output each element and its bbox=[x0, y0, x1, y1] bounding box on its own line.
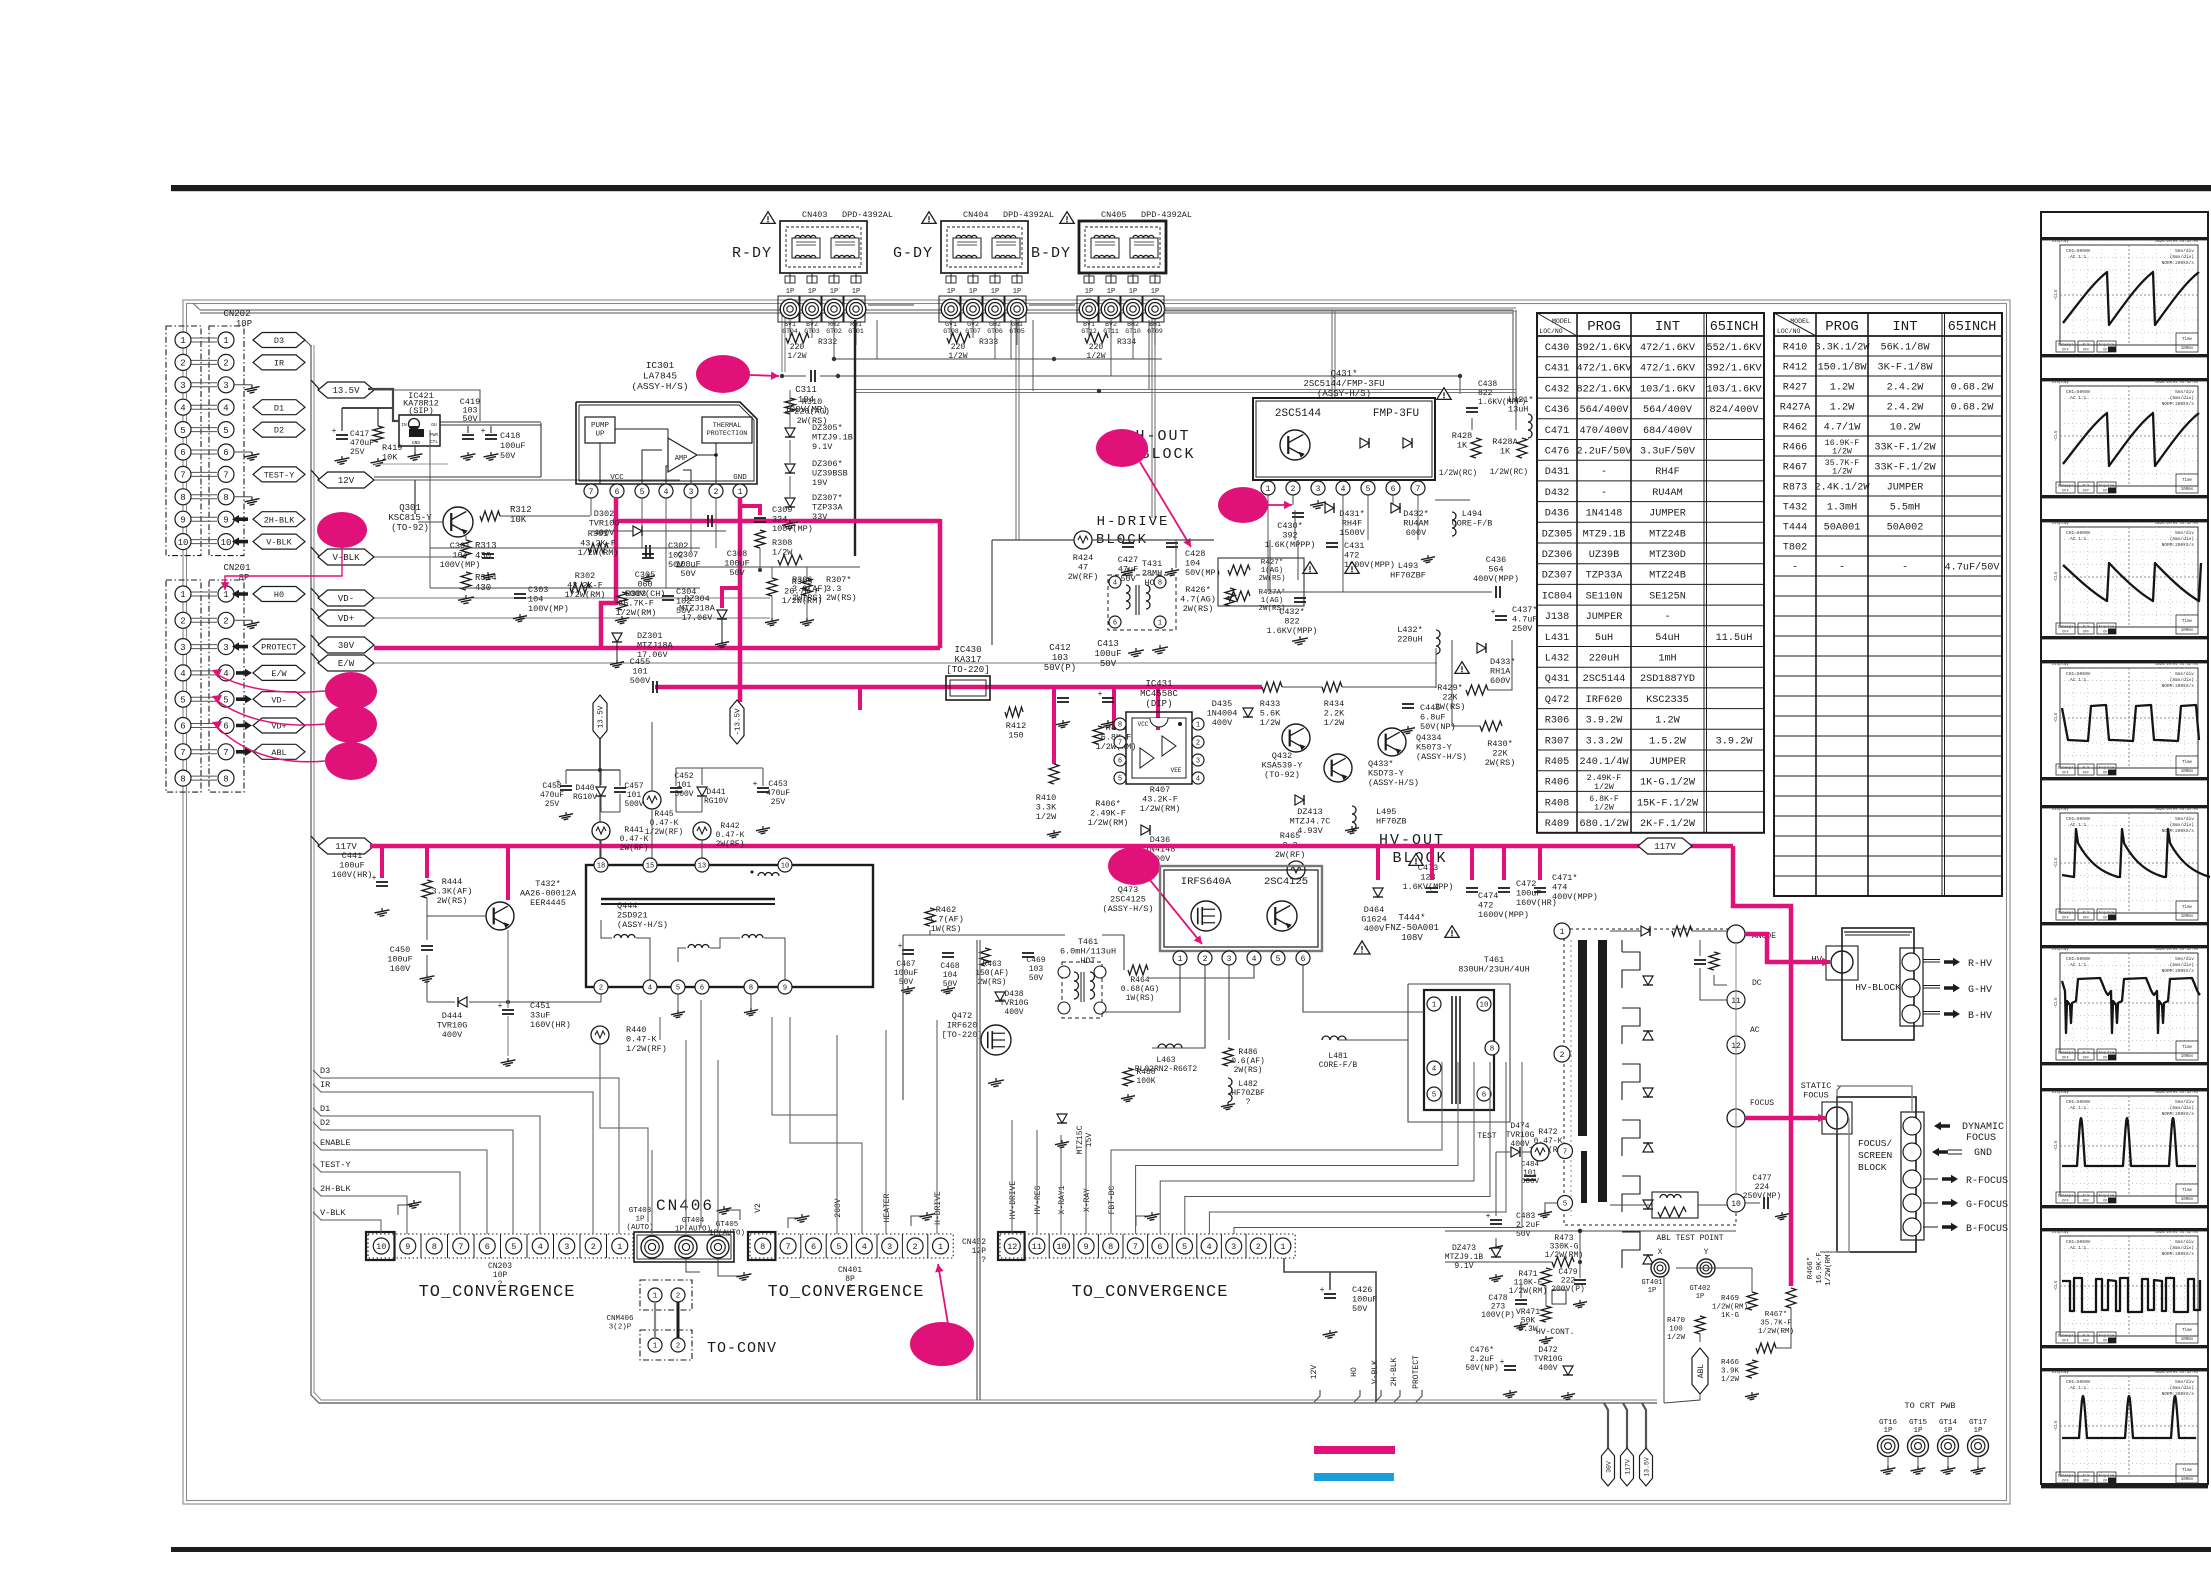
svg-text:5: 5 bbox=[223, 695, 228, 705]
svg-text:3: 3 bbox=[564, 1242, 569, 1252]
callout oval H-OUT bbox=[1096, 429, 1148, 467]
svg-text:DZ305: DZ305 bbox=[1542, 529, 1573, 540]
svg-text:L431: L431 bbox=[1545, 633, 1569, 644]
svg-text:7: 7 bbox=[1563, 1149, 1568, 1157]
resistor R466 pink path bbox=[1786, 1288, 1796, 1308]
svg-text:3(2)P: 3(2)P bbox=[609, 1324, 632, 1332]
svg-text:100ms: 100ms bbox=[2181, 915, 2194, 919]
svg-text:PUMP: PUMP bbox=[591, 422, 610, 430]
node 13.5V stub bbox=[1640, 1448, 1653, 1486]
svg-text:2.2K: 2.2K bbox=[1324, 709, 1345, 719]
svg-text:C307: C307 bbox=[678, 550, 698, 560]
svg-text:R427*: R427* bbox=[1261, 559, 1284, 567]
capacitor C302 bbox=[642, 553, 654, 555]
svg-text:MODEL: MODEL bbox=[1552, 318, 1572, 325]
switch pins bbox=[1173, 951, 1187, 965]
transistor Q433 bbox=[1324, 754, 1352, 782]
svg-text:2SC5144: 2SC5144 bbox=[1583, 674, 1626, 685]
svg-text:Interpl: Interpl bbox=[2058, 484, 2075, 489]
top rule bbox=[171, 185, 2211, 191]
svg-text:4: 4 bbox=[1252, 955, 1257, 964]
svg-text:1/2W: 1/2W bbox=[1260, 718, 1281, 728]
svg-text:220: 220 bbox=[790, 343, 805, 352]
svg-text:R466: R466 bbox=[1721, 1359, 1740, 1367]
svg-text:5: 5 bbox=[511, 1242, 516, 1252]
svg-text:1600V(MPP): 1600V(MPP) bbox=[1478, 910, 1529, 920]
svg-text:SE125N: SE125N bbox=[1649, 591, 1686, 602]
svg-text:R442: R442 bbox=[720, 822, 739, 831]
svg-text:1500V: 1500V bbox=[1339, 528, 1365, 538]
svg-text:D3: D3 bbox=[274, 336, 284, 346]
resistor R463 bbox=[980, 948, 990, 966]
svg-text:R462: R462 bbox=[1783, 423, 1807, 434]
svg-text:DZ304: DZ304 bbox=[684, 594, 710, 604]
svg-text:Interpl: Interpl bbox=[2058, 343, 2075, 348]
svg-text:+: + bbox=[332, 427, 337, 436]
svg-text:50V: 50V bbox=[1100, 659, 1117, 669]
svg-text:X:Y: X:Y bbox=[2083, 626, 2091, 630]
legend blue bar bbox=[1314, 1473, 1394, 1481]
svg-text:CORE-F/B: CORE-F/B bbox=[1452, 519, 1493, 529]
svg-text:TO_CONVERGENCE: TO_CONVERGENCE bbox=[1072, 1283, 1229, 1302]
svg-text:10.2W: 10.2W bbox=[1890, 423, 1921, 434]
svg-text:1/2W(RC): 1/2W(RC) bbox=[1490, 468, 1528, 477]
capacitor C301 bbox=[482, 553, 494, 555]
node IR bbox=[253, 355, 305, 370]
svg-text:DZ307: DZ307 bbox=[1542, 571, 1573, 582]
svg-text:3: 3 bbox=[1196, 758, 1200, 766]
svg-text:10P: 10P bbox=[493, 1271, 508, 1280]
svg-text:4: 4 bbox=[664, 488, 669, 497]
transformer T432 bbox=[586, 865, 873, 987]
svg-text:160V: 160V bbox=[390, 964, 411, 974]
svg-text:2: 2 bbox=[223, 359, 228, 369]
svg-text:1998/10/04 14:32:04: 1998/10/04 14:32:04 bbox=[2155, 380, 2199, 385]
svg-text:INT: INT bbox=[1655, 319, 1680, 335]
svg-text:(5ms/div): (5ms/div) bbox=[2170, 536, 2194, 542]
svg-text:X-RAY1: X-RAY1 bbox=[1058, 1185, 1067, 1214]
svg-text:Time: Time bbox=[2182, 337, 2193, 342]
svg-text:MODEL: MODEL bbox=[1790, 318, 1810, 325]
svg-text:824/400V: 824/400V bbox=[1710, 404, 1760, 416]
svg-text:HF70ZB: HF70ZB bbox=[1376, 817, 1407, 827]
svg-text:1/2W(RC): 1/2W(RC) bbox=[1439, 469, 1477, 478]
capacitor C432 bbox=[1294, 597, 1306, 599]
svg-text:564: 564 bbox=[1488, 565, 1503, 575]
svg-text:CN403: CN403 bbox=[802, 210, 828, 220]
svg-text:+: + bbox=[1320, 1286, 1325, 1295]
svg-text:4.7(AG): 4.7(AG) bbox=[1180, 595, 1216, 605]
svg-text:Display: Display bbox=[2052, 380, 2069, 385]
svg-text:L481: L481 bbox=[1328, 1052, 1347, 1061]
svg-text:8: 8 bbox=[749, 985, 753, 993]
svg-text:43.2K-F: 43.2K-F bbox=[567, 581, 603, 591]
oscillogram pulses2 bbox=[2041, 1368, 2208, 1371]
svg-text:R410: R410 bbox=[1783, 343, 1807, 354]
capacitor C474 bbox=[1466, 887, 1478, 889]
svg-text:DPD-4392AL: DPD-4392AL bbox=[1141, 210, 1192, 220]
svg-text:5ms/div: 5ms/div bbox=[2175, 248, 2194, 254]
svg-text:-CLV: -CLV bbox=[2053, 712, 2059, 723]
zener DZ306 bbox=[785, 464, 795, 473]
svg-text:100K: 100K bbox=[1136, 1077, 1155, 1086]
svg-text:D435: D435 bbox=[1212, 699, 1232, 709]
svg-text:4: 4 bbox=[1341, 485, 1346, 494]
resistor R310 bbox=[785, 398, 795, 414]
svg-text:L432*: L432* bbox=[1397, 625, 1423, 635]
svg-text:6: 6 bbox=[1157, 1242, 1162, 1252]
svg-text:HO: HO bbox=[1350, 1367, 1359, 1377]
svg-text:DYNAMIC: DYNAMIC bbox=[1962, 1122, 2004, 1133]
resistor R333 bbox=[947, 333, 970, 343]
svg-text:DZ306: DZ306 bbox=[1542, 550, 1573, 561]
svg-text:Y: Y bbox=[1704, 1248, 1709, 1257]
svg-text:2W(RF): 2W(RF) bbox=[1275, 850, 1306, 860]
callout oval IC301 bbox=[696, 355, 750, 393]
svg-text:12: 12 bbox=[1007, 1242, 1017, 1252]
svg-text:472/1.6KV: 472/1.6KV bbox=[1640, 363, 1696, 375]
svg-text:R308: R308 bbox=[772, 538, 792, 548]
svg-text:-CLV: -CLV bbox=[2053, 1420, 2059, 1431]
svg-text:4: 4 bbox=[180, 669, 185, 679]
svg-text:11: 11 bbox=[1032, 1242, 1042, 1252]
resistor R313 bbox=[461, 540, 471, 558]
oscillogram chop bbox=[2041, 1228, 2208, 1231]
resistor R332 bbox=[786, 333, 809, 343]
svg-text:CN202: CN202 bbox=[223, 309, 250, 319]
svg-text:5ms/div: 5ms/div bbox=[2175, 956, 2194, 962]
svg-text:DZ301: DZ301 bbox=[637, 631, 663, 641]
svg-text:X:Y: X:Y bbox=[2083, 912, 2091, 916]
svg-text:IRF620: IRF620 bbox=[1586, 695, 1623, 706]
svg-text:47: 47 bbox=[1078, 563, 1088, 573]
diode D436 bbox=[1141, 825, 1150, 835]
svg-text:OFF: OFF bbox=[2062, 1340, 2070, 1344]
bus verticals to mid bbox=[1015, 313, 1017, 540]
svg-text:E/W: E/W bbox=[338, 659, 355, 669]
svg-text:TZP33A: TZP33A bbox=[812, 503, 844, 513]
svg-text:Q473: Q473 bbox=[1118, 885, 1138, 895]
svg-text:R405: R405 bbox=[1545, 757, 1569, 768]
svg-text:TVR10G: TVR10G bbox=[1000, 999, 1029, 1008]
svg-text:FMP-3FU: FMP-3FU bbox=[1373, 408, 1419, 420]
svg-text:2W(RS): 2W(RS) bbox=[826, 593, 857, 603]
svg-text:160V(HR): 160V(HR) bbox=[1516, 898, 1557, 908]
svg-text:2W(RF): 2W(RF) bbox=[620, 844, 649, 853]
svg-text:MTZJ18A: MTZJ18A bbox=[679, 604, 716, 614]
transistor Q4334 bbox=[1378, 728, 1406, 756]
svg-text:6.0mH/113uH: 6.0mH/113uH bbox=[1060, 947, 1116, 957]
svg-text:Display: Display bbox=[2052, 1370, 2069, 1375]
zener MTZ15C bbox=[1057, 1114, 1067, 1123]
IC301 pin stubs bbox=[641, 498, 643, 548]
svg-text:5: 5 bbox=[1432, 1092, 1437, 1100]
svg-text:26.7K-F: 26.7K-F bbox=[618, 599, 654, 609]
capacitor C478 bbox=[1515, 1299, 1527, 1301]
svg-text:1: 1 bbox=[653, 1343, 658, 1351]
svg-text:5: 5 bbox=[223, 426, 228, 436]
svg-text:C438: C438 bbox=[1478, 380, 1497, 389]
svg-text:25V: 25V bbox=[545, 800, 560, 809]
svg-text:TO-CONV: TO-CONV bbox=[707, 1340, 777, 1357]
svg-text:1K-G.1/2W: 1K-G.1/2W bbox=[1640, 777, 1696, 789]
svg-text:6: 6 bbox=[485, 1242, 490, 1252]
svg-text:324: 324 bbox=[772, 515, 787, 525]
svg-text:7: 7 bbox=[1416, 485, 1421, 494]
svg-text:Interpl: Interpl bbox=[2058, 1474, 2075, 1479]
svg-text:Q472: Q472 bbox=[1545, 695, 1569, 706]
svg-text:10: 10 bbox=[1056, 1242, 1066, 1252]
svg-text:13.5V: 13.5V bbox=[1643, 1457, 1650, 1477]
svg-text:5: 5 bbox=[180, 426, 185, 436]
svg-text:V-BLK: V-BLK bbox=[266, 538, 292, 548]
svg-text:25V: 25V bbox=[350, 448, 365, 457]
svg-text:103/1.6KV: 103/1.6KV bbox=[1640, 383, 1696, 395]
svg-text:2: 2 bbox=[180, 617, 185, 627]
svg-text:C430*: C430* bbox=[1277, 521, 1303, 531]
svg-text:R428: R428 bbox=[1452, 431, 1472, 441]
svg-text:1: 1 bbox=[180, 590, 185, 600]
svg-text:D444: D444 bbox=[442, 1011, 462, 1021]
svg-text:50V(NP): 50V(NP) bbox=[1465, 1364, 1499, 1373]
bus drop to Q431 box bbox=[1331, 311, 1333, 398]
svg-text:1: 1 bbox=[738, 488, 743, 497]
svg-text:E/W: E/W bbox=[271, 669, 287, 679]
svg-text:C305: C305 bbox=[635, 570, 655, 580]
svg-text:22K: 22K bbox=[1442, 693, 1458, 703]
svg-text:CN404: CN404 bbox=[963, 210, 989, 220]
svg-text:+: + bbox=[1500, 1358, 1505, 1367]
svg-text:400V: 400V bbox=[1364, 924, 1385, 934]
svg-text:R-DY: R-DY bbox=[732, 245, 772, 262]
capacitor C471 bbox=[1534, 887, 1546, 889]
svg-text:Time: Time bbox=[2182, 619, 2193, 624]
svg-text:250V(MP): 250V(MP) bbox=[1743, 1192, 1781, 1201]
svg-text:100uF: 100uF bbox=[675, 560, 701, 570]
svg-text:C484: C484 bbox=[1521, 1161, 1540, 1169]
svg-text:1/2W: 1/2W bbox=[1667, 1334, 1686, 1342]
node PROTECT bbox=[253, 639, 305, 654]
svg-text:R427: R427 bbox=[1783, 383, 1807, 394]
svg-text:12P: 12P bbox=[972, 1247, 987, 1256]
svg-text:CN406: CN406 bbox=[656, 1197, 714, 1215]
oscillogram saw1 bbox=[2041, 237, 2208, 240]
svg-text:R407: R407 bbox=[1150, 785, 1170, 795]
diode D441 bbox=[697, 787, 707, 796]
svg-text:C476*: C476* bbox=[1470, 1346, 1494, 1355]
svg-text:R433: R433 bbox=[1260, 699, 1280, 709]
svg-text:65INCH: 65INCH bbox=[1710, 320, 1759, 335]
svg-text:25V: 25V bbox=[771, 798, 786, 807]
svg-text:220: 220 bbox=[951, 343, 966, 352]
svg-text:LA7845: LA7845 bbox=[643, 371, 678, 382]
svg-text:160V(HR): 160V(HR) bbox=[332, 870, 373, 880]
svg-text:DZ307*: DZ307* bbox=[812, 493, 843, 503]
svg-text:OFF: OFF bbox=[2083, 917, 2091, 921]
svg-text:4: 4 bbox=[180, 403, 185, 413]
svg-text:6: 6 bbox=[223, 448, 228, 458]
diode D431 bbox=[1325, 503, 1334, 513]
svg-text:10: 10 bbox=[178, 538, 189, 548]
svg-text:AC 1:1: AC 1:1 bbox=[2070, 962, 2087, 968]
svg-text:G-DY: G-DY bbox=[893, 245, 933, 262]
H-OUT pin stub wires bbox=[1267, 495, 1269, 592]
svg-text:43.2K-F: 43.2K-F bbox=[580, 539, 616, 549]
svg-text:104: 104 bbox=[943, 971, 958, 980]
svg-text:472: 472 bbox=[1344, 551, 1359, 561]
13.5V wire to IC421 bbox=[368, 389, 399, 421]
svg-text:R440: R440 bbox=[626, 1025, 646, 1035]
svg-text:OFF: OFF bbox=[2062, 631, 2070, 635]
svg-text:2W(RS): 2W(RS) bbox=[978, 978, 1007, 987]
capacitor C451 bbox=[502, 1009, 514, 1011]
svg-text:392/1.6KV: 392/1.6KV bbox=[1576, 342, 1632, 354]
svg-text:103: 103 bbox=[1052, 653, 1068, 663]
svg-text:(TO-92): (TO-92) bbox=[391, 523, 429, 533]
svg-text:NORM:200kS/s: NORM:200kS/s bbox=[2162, 828, 2195, 834]
svg-text:15: 15 bbox=[646, 863, 654, 871]
svg-text:ABL: ABL bbox=[271, 748, 286, 758]
svg-text:1/2W: 1/2W bbox=[1721, 1376, 1740, 1384]
svg-text:11.5uH: 11.5uH bbox=[1716, 633, 1753, 644]
svg-text:117V: 117V bbox=[1654, 842, 1676, 852]
svg-text:1K-G: 1K-G bbox=[1721, 1312, 1740, 1320]
svg-text:?: ? bbox=[1246, 1098, 1251, 1107]
svg-text:1998/10/04 14:32:04: 1998/10/04 14:32:04 bbox=[2155, 239, 2199, 244]
svg-text:DZ305*: DZ305* bbox=[812, 423, 843, 433]
svg-text:AC: AC bbox=[1750, 1026, 1760, 1035]
node VD+ bbox=[253, 718, 305, 733]
svg-text:TO_CONVERGENCE: TO_CONVERGENCE bbox=[419, 1283, 576, 1302]
svg-text:ABL: ABL bbox=[1697, 1364, 1706, 1379]
svg-text:-: - bbox=[1601, 488, 1607, 499]
svg-text:X:Y: X:Y bbox=[2083, 1335, 2091, 1339]
svg-text:1: 1 bbox=[223, 336, 228, 346]
svg-text:IN: IN bbox=[401, 422, 407, 428]
svg-text:10: 10 bbox=[1479, 1002, 1489, 1010]
svg-text:1/2W(RM): 1/2W(RM) bbox=[565, 590, 606, 600]
svg-text:+: + bbox=[898, 942, 903, 951]
svg-text:7: 7 bbox=[589, 488, 594, 497]
capacitor C453 bbox=[757, 787, 769, 789]
svg-text:T444*: T444* bbox=[1398, 913, 1425, 923]
callout ovals CN201 bbox=[325, 672, 377, 710]
svg-text:D431*: D431* bbox=[1339, 509, 1365, 519]
pink wire focus bbox=[1745, 1116, 1814, 1121]
svg-text:OFF: OFF bbox=[2083, 631, 2091, 635]
svg-text:HV-CONT.: HV-CONT. bbox=[1536, 1328, 1574, 1337]
yoke return wires bbox=[834, 358, 1162, 360]
svg-text:4: 4 bbox=[862, 1242, 867, 1252]
svg-text:470uF: 470uF bbox=[350, 439, 374, 448]
svg-text:0.68.2W: 0.68.2W bbox=[1951, 403, 1995, 414]
svg-text:1/2W: 1/2W bbox=[1594, 782, 1614, 792]
diode D438 bbox=[995, 992, 1005, 1001]
svg-text:400V: 400V bbox=[594, 528, 615, 538]
13.5V wire down bbox=[599, 739, 601, 770]
svg-text:3.9.2W: 3.9.2W bbox=[1716, 736, 1754, 747]
svg-text:R469: R469 bbox=[1721, 1295, 1739, 1303]
svg-text:GT405: GT405 bbox=[716, 1221, 739, 1229]
svg-text:-13.5V: -13.5V bbox=[735, 708, 743, 736]
svg-text:CN201: CN201 bbox=[223, 563, 250, 573]
svg-text:Display: Display bbox=[2052, 807, 2069, 812]
svg-text:C428: C428 bbox=[1185, 549, 1205, 559]
svg-text:+: + bbox=[1486, 1212, 1491, 1221]
oscillogram square bbox=[2041, 660, 2208, 663]
svg-text:R302: R302 bbox=[575, 571, 595, 581]
svg-text:830UH/23UH/4UH: 830UH/23UH/4UH bbox=[1458, 965, 1529, 975]
svg-text:3: 3 bbox=[223, 381, 228, 391]
pink net pin6/pin1 bbox=[613, 519, 940, 524]
svg-text:2SC4125: 2SC4125 bbox=[1264, 876, 1308, 888]
svg-text:150.1/8W: 150.1/8W bbox=[1818, 362, 1868, 374]
svg-text:C431: C431 bbox=[1344, 541, 1364, 551]
zener DZ304 bbox=[717, 610, 727, 619]
svg-text:9.1V: 9.1V bbox=[812, 442, 833, 452]
svg-text:PROTECT: PROTECT bbox=[261, 643, 297, 653]
svg-text:5ms/div: 5ms/div bbox=[2175, 389, 2194, 395]
svg-text:5: 5 bbox=[640, 488, 645, 497]
svg-text:4.7/1W: 4.7/1W bbox=[1824, 422, 1862, 434]
svg-text:BLOCK: BLOCK bbox=[1140, 446, 1195, 463]
svg-text:CH1=500mV: CH1=500mV bbox=[2066, 671, 2091, 677]
svg-text:OFF: OFF bbox=[2083, 490, 2091, 494]
svg-text:Interpl: Interpl bbox=[2058, 1051, 2075, 1056]
svg-text:50A001: 50A001 bbox=[1824, 523, 1861, 534]
svg-text:2H-BLK: 2H-BLK bbox=[320, 1184, 352, 1194]
zener DZ305 bbox=[785, 428, 795, 437]
svg-text:MTZJ9.1B: MTZJ9.1B bbox=[812, 433, 853, 443]
svg-text:R412: R412 bbox=[1783, 363, 1807, 374]
13.5V pink bus bbox=[655, 685, 1262, 690]
svg-text:30V: 30V bbox=[1605, 1461, 1612, 1473]
svg-text:6: 6 bbox=[1113, 620, 1117, 628]
svg-text:17.06V: 17.06V bbox=[682, 613, 714, 623]
svg-text:2: 2 bbox=[599, 985, 603, 993]
svg-text:L432: L432 bbox=[1545, 654, 1569, 665]
svg-text:103: 103 bbox=[1029, 965, 1044, 974]
svg-text:MTZJ9.1B: MTZJ9.1B bbox=[1445, 1253, 1484, 1262]
svg-text:500V: 500V bbox=[674, 790, 693, 799]
svg-text:1: 1 bbox=[1266, 485, 1271, 494]
oscillogram pulses bbox=[2041, 1088, 2208, 1091]
svg-text:1/2W(RM): 1/2W(RM) bbox=[578, 548, 619, 558]
svg-text:Time: Time bbox=[2182, 1045, 2193, 1050]
svg-text:UP: UP bbox=[595, 431, 605, 439]
svg-text:5.6K: 5.6K bbox=[1260, 709, 1281, 719]
svg-text:FNZ-50A001: FNZ-50A001 bbox=[1385, 923, 1439, 933]
svg-text:108V: 108V bbox=[1401, 933, 1423, 943]
svg-text:1/2W: 1/2W bbox=[1594, 803, 1614, 813]
capacitor C472 bbox=[1498, 887, 1510, 889]
svg-text:472/1.6KV: 472/1.6KV bbox=[1576, 363, 1632, 375]
svg-text:R486: R486 bbox=[1238, 1048, 1257, 1057]
resistor R412 bbox=[1005, 707, 1023, 717]
svg-text:2: 2 bbox=[591, 1242, 596, 1252]
svg-text:Interpl: Interpl bbox=[2058, 766, 2075, 771]
svg-text:Q433*: Q433* bbox=[1368, 759, 1394, 769]
svg-text:2: 2 bbox=[676, 1343, 681, 1351]
svg-text:-: - bbox=[1792, 563, 1798, 574]
svg-text:D1: D1 bbox=[274, 403, 284, 413]
diode D433 bbox=[1477, 643, 1486, 653]
svg-text:9: 9 bbox=[180, 515, 185, 525]
svg-text:J138: J138 bbox=[1545, 612, 1569, 623]
node VD- bbox=[253, 692, 305, 707]
svg-text:OFF: OFF bbox=[2083, 349, 2091, 353]
svg-text:R310: R310 bbox=[802, 397, 822, 407]
